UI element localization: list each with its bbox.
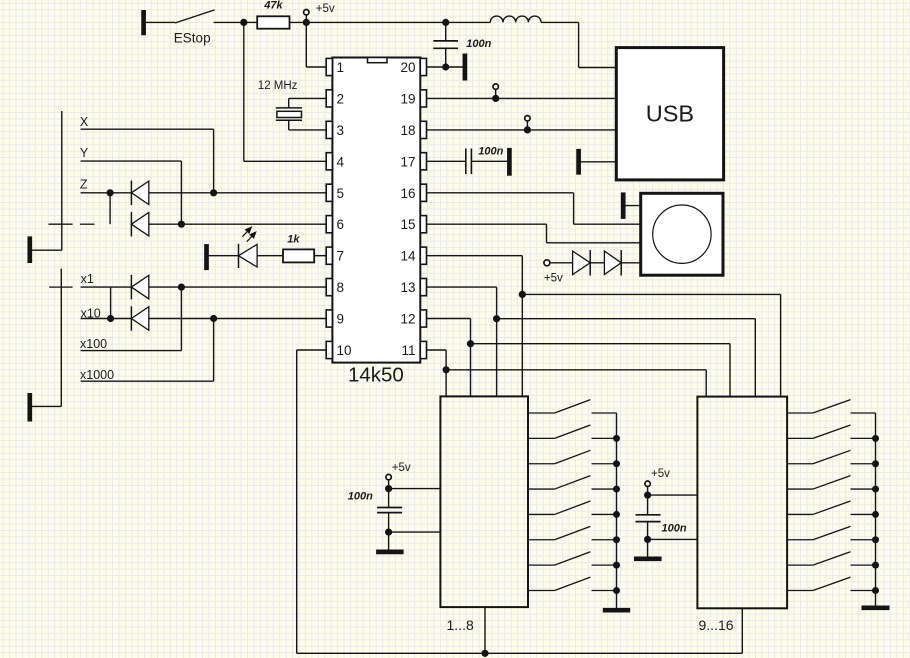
junction — [644, 536, 651, 543]
junction — [442, 63, 449, 70]
svg-text:17: 17 — [400, 154, 415, 169]
svg-text:+5v: +5v — [651, 468, 670, 480]
wire — [214, 21, 244, 23]
svg-text:Z: Z — [80, 178, 88, 192]
node bus — [616, 413, 618, 609]
svg-text:100n: 100n — [662, 523, 687, 535]
ground bar — [862, 605, 890, 610]
wire Y — [81, 161, 182, 224]
wire — [110, 287, 112, 318]
power +5v terminal — [386, 462, 411, 480]
svg-text:9...16: 9...16 — [699, 617, 734, 633]
svg-text:20: 20 — [400, 60, 415, 75]
resistor R1 47k — [257, 0, 289, 29]
svg-text:1...8: 1...8 — [447, 617, 474, 633]
wire x100 — [81, 287, 182, 351]
svg-text:16: 16 — [400, 186, 415, 201]
svg-text:12: 12 — [400, 312, 415, 327]
ground bar — [27, 393, 32, 422]
LED D3 — [239, 227, 258, 268]
junction — [493, 315, 500, 322]
junction — [481, 650, 488, 657]
wire — [648, 538, 698, 540]
resistor R2 1k — [257, 234, 314, 263]
junction — [178, 221, 185, 228]
ground bar (EStop common) — [141, 10, 146, 35]
wire pin15 — [427, 224, 641, 243]
label x100 — [80, 337, 107, 351]
wire pin4 EStop feed — [244, 22, 326, 161]
switch S1 EStop blade — [175, 10, 215, 23]
power +5v terminal — [544, 260, 563, 285]
junction — [210, 189, 217, 196]
terminal — [525, 116, 530, 127]
capacitor C3 100n — [348, 491, 402, 513]
wire dash stub — [49, 223, 95, 225]
node bus — [875, 413, 877, 606]
ground bar — [507, 148, 512, 176]
wire — [497, 319, 756, 397]
wire — [144, 21, 175, 23]
wire x10 — [81, 318, 132, 320]
junction — [492, 95, 499, 102]
IC pin stubs — [326, 58, 426, 358]
wire pin5 — [149, 192, 326, 194]
IC pin numbers — [337, 60, 416, 358]
svg-text:X: X — [80, 115, 89, 129]
ground bar (USB shield) — [576, 149, 581, 175]
wire — [446, 370, 706, 397]
wire — [32, 249, 62, 251]
svg-text:100n: 100n — [466, 38, 491, 50]
node bus (multipliers) — [60, 269, 62, 407]
wire — [446, 21, 491, 23]
svg-text:100n: 100n — [478, 145, 503, 157]
svg-text:5: 5 — [337, 186, 345, 201]
svg-text:18: 18 — [400, 123, 415, 138]
ground bar — [621, 192, 626, 219]
connector J3 9..16 — [697, 397, 787, 609]
junction — [442, 19, 449, 26]
wire — [550, 262, 573, 264]
wire — [244, 21, 257, 23]
label x10 — [81, 307, 101, 321]
svg-text:14k50: 14k50 — [348, 364, 404, 387]
svg-text:100n: 100n — [348, 491, 373, 503]
svg-text:7: 7 — [337, 249, 345, 264]
wire pin8 — [149, 286, 326, 288]
junction — [240, 19, 247, 26]
diode D7 — [604, 250, 621, 275]
junction — [644, 492, 651, 499]
wire — [389, 488, 441, 490]
junction — [178, 284, 185, 291]
wire — [389, 531, 441, 533]
wire — [648, 494, 698, 496]
wire — [522, 294, 780, 396]
svg-text:14: 14 — [400, 249, 416, 264]
svg-text:12 MHz: 12 MHz — [258, 80, 298, 92]
wire pin11 — [427, 350, 447, 396]
IC U1 14k50 body — [332, 58, 420, 363]
ground bar — [204, 244, 209, 270]
label 9...16 — [699, 617, 734, 633]
wire — [388, 480, 390, 508]
label Z — [80, 178, 88, 192]
wire — [388, 513, 390, 550]
power +5v terminal — [304, 3, 335, 19]
wire pin14 — [427, 256, 523, 397]
svg-text:11: 11 — [401, 343, 415, 358]
svg-text:1k: 1k — [287, 234, 300, 246]
junction — [467, 340, 474, 347]
wire — [541, 21, 579, 23]
wire — [579, 161, 617, 163]
wire pin18 — [427, 129, 617, 131]
svg-text:10: 10 — [337, 343, 352, 358]
switch bank S10..S17 — [787, 400, 879, 594]
wire — [484, 607, 486, 653]
wire x1000 — [81, 319, 214, 382]
junction — [385, 529, 392, 536]
wire pin6 — [149, 223, 326, 225]
wire — [471, 160, 509, 162]
svg-text:3: 3 — [337, 123, 345, 138]
junction — [519, 291, 526, 298]
wire — [579, 67, 617, 69]
svg-text:8: 8 — [337, 280, 345, 295]
encoder SW1 — [641, 193, 723, 275]
wire — [306, 21, 445, 23]
junction — [303, 19, 310, 26]
wire — [578, 22, 580, 67]
wire pin20 — [427, 66, 464, 68]
capacitor C2 100n — [466, 145, 504, 174]
junction — [385, 485, 392, 492]
wire — [647, 522, 649, 557]
wire — [471, 344, 731, 397]
junction — [524, 126, 531, 133]
svg-text:4: 4 — [337, 154, 345, 169]
diode D5 — [131, 306, 148, 331]
junction — [443, 366, 450, 373]
svg-text:Y: Y — [80, 146, 89, 160]
svg-text:47k: 47k — [263, 0, 283, 12]
svg-text:x1000: x1000 — [80, 368, 114, 382]
wire pin17 — [427, 160, 466, 162]
diode D2 — [131, 212, 148, 237]
label Y — [80, 146, 89, 160]
svg-text:USB: USB — [646, 101, 694, 127]
junction — [107, 315, 114, 322]
svg-text:EStop: EStop — [174, 30, 211, 45]
wire pin3 — [289, 120, 327, 130]
diode D4 — [131, 275, 148, 300]
ground bar — [634, 556, 662, 561]
svg-text:+5v: +5v — [392, 462, 411, 474]
label X — [80, 115, 89, 129]
svg-text:6: 6 — [337, 217, 345, 232]
wire — [290, 21, 307, 23]
connector J2 1..8 — [440, 396, 528, 607]
wire pin9 — [149, 318, 326, 320]
wire — [623, 205, 641, 207]
inductor L1 — [490, 16, 541, 22]
wire — [647, 486, 649, 514]
junction — [210, 315, 217, 322]
wire — [741, 608, 743, 653]
wire pin16 — [427, 193, 641, 224]
wire pin19 — [427, 97, 617, 99]
diode D1 — [131, 181, 148, 206]
wire — [209, 255, 239, 257]
svg-text:+5v: +5v — [544, 272, 563, 284]
wire pin1 +5v feed — [306, 22, 326, 67]
svg-text:9: 9 — [337, 312, 345, 327]
power +5v terminal — [645, 468, 670, 487]
svg-text:1: 1 — [337, 60, 345, 75]
svg-text:+5v: +5v — [316, 3, 335, 15]
svg-text:2: 2 — [337, 91, 345, 106]
label EStop — [174, 30, 211, 45]
svg-text:x100: x100 — [80, 337, 107, 351]
wire Z — [81, 192, 132, 194]
wire pin13 — [427, 287, 497, 396]
wire pin12 — [427, 319, 471, 397]
svg-text:19: 19 — [400, 91, 415, 106]
wire — [109, 193, 111, 224]
wire — [314, 255, 326, 257]
capacitor C1 100n — [433, 22, 491, 67]
svg-text:x1: x1 — [81, 272, 94, 286]
wire — [621, 262, 641, 264]
diode D6 — [573, 250, 591, 275]
IC notch — [368, 58, 388, 63]
capacitor C4 100n — [636, 515, 687, 535]
ground bar — [603, 608, 630, 613]
wire pin10 common — [297, 350, 743, 653]
switch bank S2..S9 — [528, 400, 620, 594]
ground bar — [27, 236, 32, 263]
label x1000 — [80, 368, 114, 382]
node bus (axes) — [61, 111, 63, 250]
wire x1 — [81, 286, 132, 288]
ground bar — [463, 54, 468, 81]
ground bar — [376, 550, 404, 555]
wire pin2 — [289, 98, 327, 108]
wire tick — [49, 286, 72, 288]
crystal X1 12 MHz — [258, 80, 302, 121]
connector J1 USB — [616, 48, 723, 180]
terminal — [493, 84, 498, 95]
label 1...8 — [447, 617, 474, 633]
wire — [32, 405, 61, 407]
svg-text:15: 15 — [400, 217, 415, 232]
label 14k50 — [348, 364, 404, 387]
wire — [590, 262, 604, 264]
label x1 — [81, 272, 94, 286]
wire X — [81, 129, 214, 193]
junction — [107, 189, 114, 196]
svg-text:13: 13 — [400, 280, 415, 295]
